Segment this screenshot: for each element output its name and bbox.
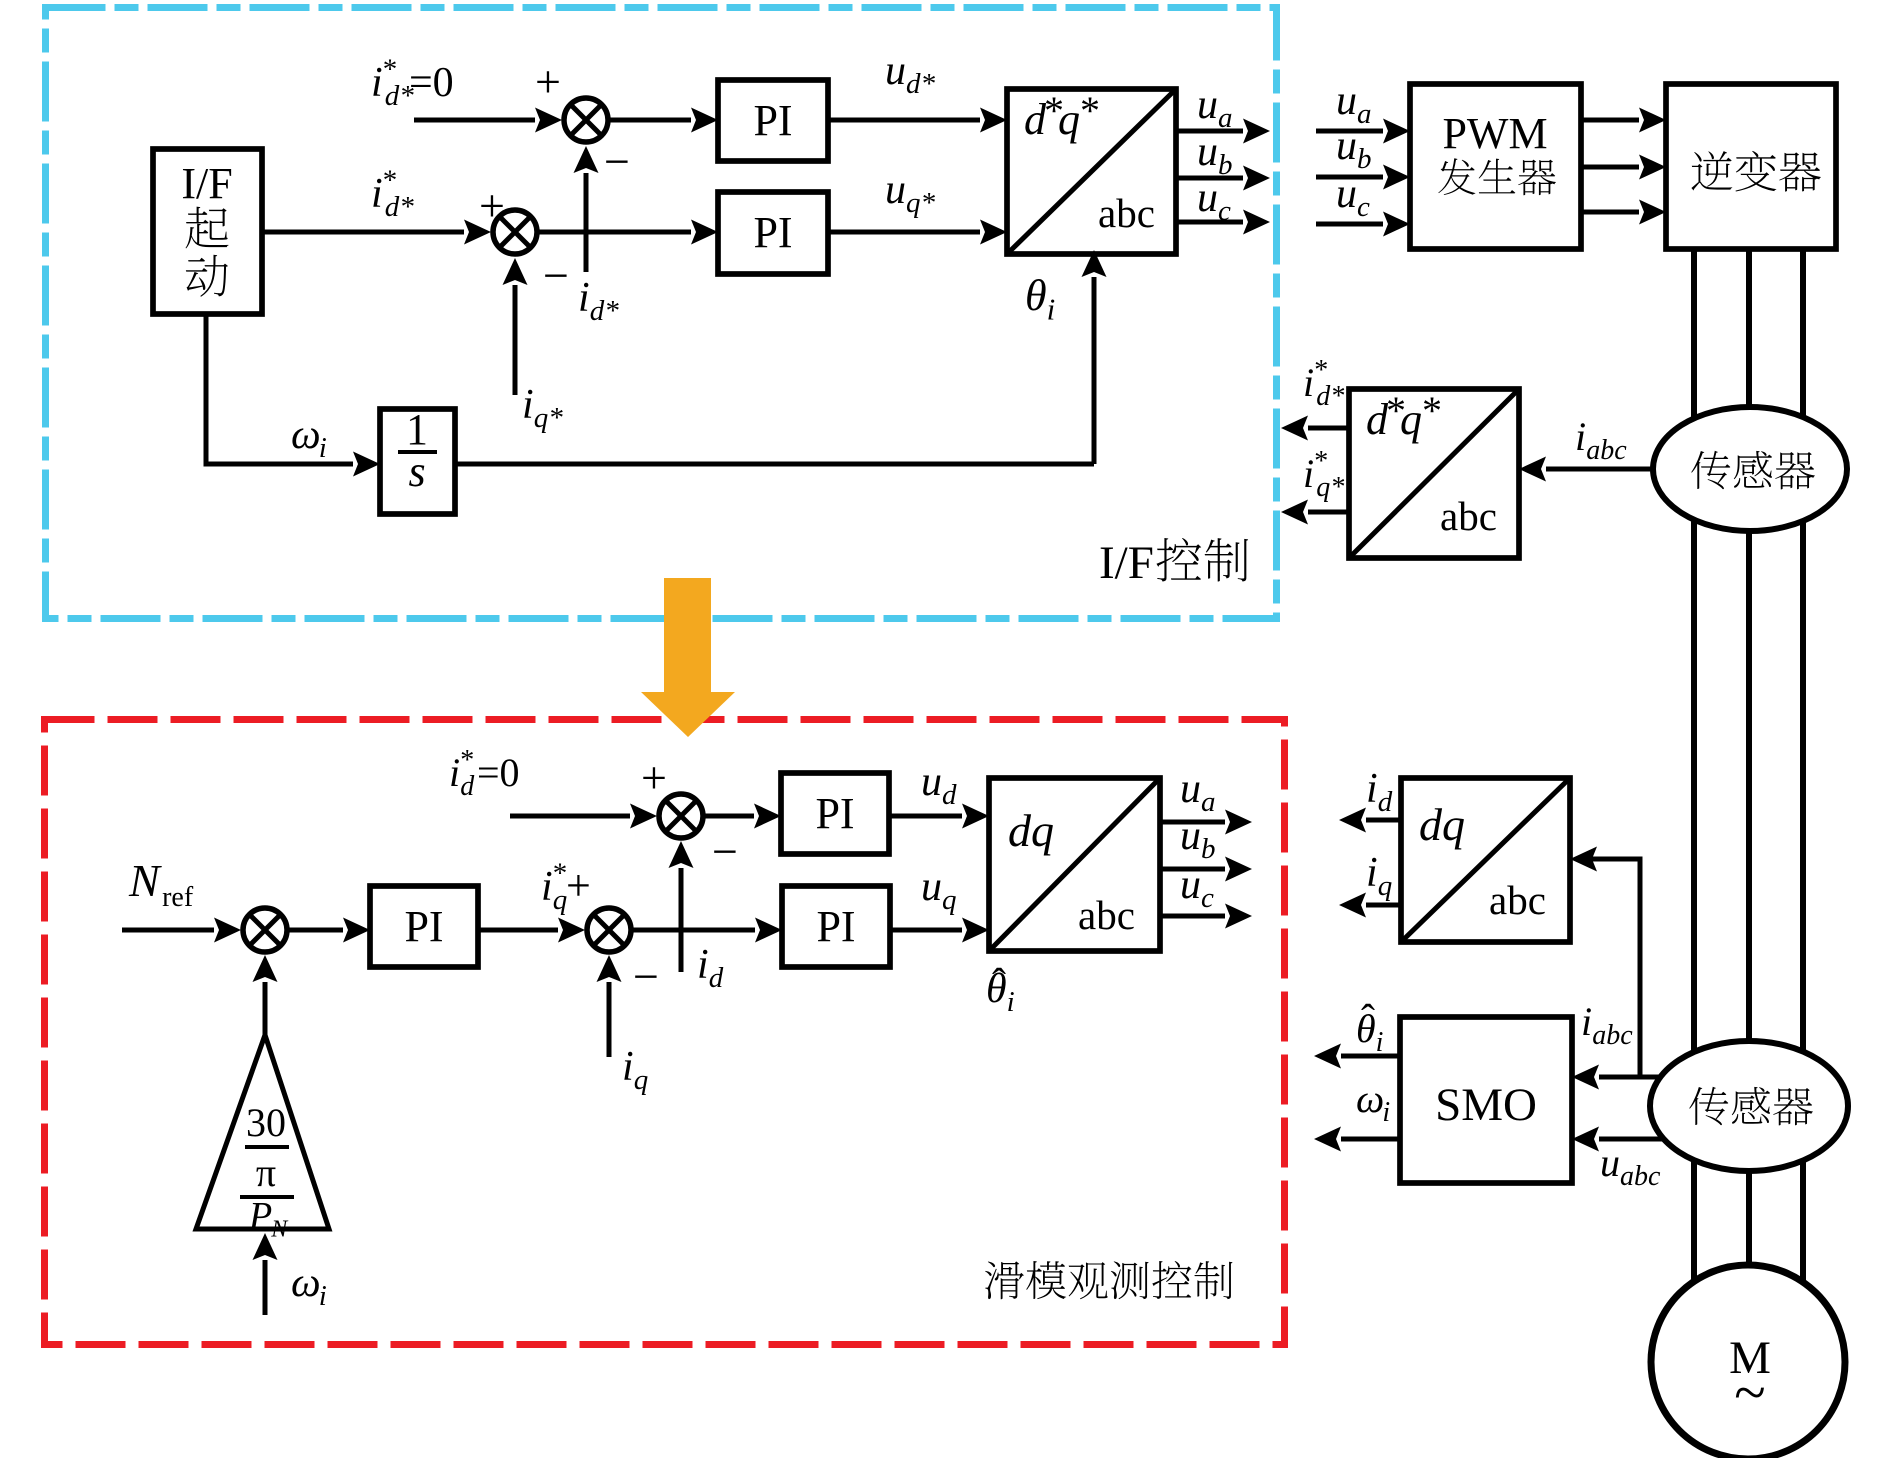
svg-text:θ: θ — [1025, 271, 1047, 320]
svg-text:−: − — [633, 951, 659, 1002]
svg-text:a: a — [1201, 786, 1216, 818]
svg-text:d: d — [1008, 805, 1032, 856]
svg-text:+: + — [641, 752, 667, 803]
svg-text:b: b — [1357, 143, 1372, 175]
svg-text:q*: q* — [534, 402, 564, 434]
svg-text:abc: abc — [1489, 877, 1546, 923]
svg-text:*: * — [1080, 88, 1100, 133]
wire: ub output (SMO) — [1160, 867, 1225, 872]
svg-text:i: i — [319, 1280, 327, 1312]
wire: id feedback into S3 (from below) — [679, 868, 684, 972]
wire: S1 output to PI block — [608, 118, 691, 123]
svg-text:30: 30 — [246, 1100, 286, 1145]
svg-text:ω: ω — [291, 412, 321, 458]
svg-text:−: − — [712, 826, 738, 877]
dashed boundary: sliding-mode observer control region (red) — [45, 720, 1285, 1345]
wire: integrator output theta-i feedback to transform block — [455, 462, 1094, 467]
svg-text:u: u — [885, 48, 906, 94]
transform block dq-abc (current feedback, SMO) — [1401, 778, 1570, 942]
svg-text:u: u — [1180, 766, 1201, 812]
PI controller (d-axis, SMO) — [781, 773, 889, 854]
svg-text:d*: d* — [906, 68, 936, 100]
svg-text:i: i — [1575, 414, 1586, 459]
wire: PWM gate signal 2 to inverter — [1581, 165, 1639, 170]
svg-text:PWM: PWM — [1442, 109, 1547, 158]
wire: omega-i from I/F block down to integrator — [206, 314, 353, 464]
summing junction S1 (d-axis, I/F) — [564, 98, 608, 142]
label sliding-mode observer control (region caption) — [985, 1261, 1233, 1299]
wire: omega-i input into triangle (from below) — [263, 1260, 268, 1315]
svg-text:u: u — [1336, 171, 1357, 217]
svg-text:I/F: I/F — [181, 159, 232, 208]
svg-text:d: d — [709, 962, 724, 994]
svg-text:i: i — [1007, 986, 1015, 1018]
block inverter (ni-bian-qi) — [1666, 84, 1836, 249]
wire: S2 output to PI block — [537, 230, 691, 235]
wire: S4 output to speed PI — [287, 928, 343, 933]
svg-text:PI: PI — [753, 208, 792, 257]
wire: id* reference into summing junction S1 — [414, 118, 535, 123]
svg-text:u: u — [1197, 82, 1218, 128]
sensor ellipse (current sensor, top) — [1653, 407, 1847, 531]
wire: omega-i output of SMO — [1341, 1137, 1400, 1142]
svg-text:c: c — [1357, 191, 1370, 223]
svg-text:ω: ω — [291, 1260, 321, 1306]
svg-text:u: u — [1180, 862, 1201, 908]
gain triangle 30/pi/PN (speed conversion) — [196, 1035, 329, 1229]
svg-text:c: c — [1201, 882, 1214, 914]
svg-text:abc: abc — [1592, 1020, 1633, 1051]
svg-text:θ: θ — [986, 966, 1007, 1012]
svg-text:i: i — [541, 864, 553, 910]
transform block d*q*-to-abc (I/F) — [1007, 89, 1176, 254]
svg-text:q: q — [1442, 799, 1465, 850]
wire: speed PI output to summing junction S5 — [478, 928, 558, 933]
svg-text:q: q — [634, 1064, 649, 1096]
wire: iq output to SMO controller — [1366, 903, 1401, 908]
wire: S3 output to PI — [703, 814, 754, 819]
svg-text:c: c — [1218, 195, 1231, 227]
svg-text:i: i — [1581, 999, 1592, 1044]
svg-text:ω: ω — [1356, 1076, 1384, 1121]
svg-text:abc: abc — [1098, 190, 1155, 236]
wire: ua output of transform (I/F) — [1176, 129, 1243, 134]
svg-text:i: i — [319, 432, 327, 464]
svg-text:u: u — [1197, 175, 1218, 221]
svg-text:i: i — [1366, 766, 1378, 812]
svg-text:u: u — [921, 864, 942, 910]
block I/F qidong (I/F start-up) — [153, 149, 262, 314]
sensor ellipse (current/voltage sensor, bottom) — [1650, 1041, 1848, 1171]
PI controller (q-axis, I/F) — [718, 192, 828, 274]
svg-text:i: i — [697, 942, 709, 988]
svg-text:u: u — [1336, 78, 1357, 124]
svg-text:abc: abc — [1586, 435, 1627, 466]
svg-text:a: a — [1218, 102, 1233, 134]
svg-text:q: q — [1400, 395, 1422, 444]
wire: PWM gate signal 3 to inverter — [1581, 210, 1639, 215]
svg-text:u: u — [1336, 123, 1357, 169]
svg-text:i: i — [1382, 1097, 1390, 1128]
svg-text:+: + — [535, 56, 561, 107]
svg-text:i: i — [622, 1044, 634, 1090]
mode-transition arrow (orange) — [641, 578, 735, 737]
wire: three-phase lines inverter-to-motor (x=1749) — [1746, 249, 1752, 1330]
svg-text:θ: θ — [1356, 1006, 1376, 1051]
wire: PWM gate signal 1 to inverter — [1581, 118, 1639, 123]
svg-text:d: d — [1378, 786, 1393, 818]
svg-text:*: * — [1422, 388, 1442, 433]
wire: iabc branch up into dq-abc transform (SMO) — [1578, 859, 1640, 1077]
svg-text:q: q — [1058, 95, 1080, 144]
svg-text:s: s — [408, 447, 425, 496]
summing junction S5 (q-axis, SMO) — [587, 908, 631, 952]
svg-text:P: P — [248, 1195, 272, 1237]
wire: S5 output to PI (q-axis, SMO) — [631, 928, 755, 933]
integrator block 1/s — [380, 409, 455, 514]
dashed boundary: I/F control region (cyan) — [46, 8, 1277, 619]
svg-text:u: u — [1197, 129, 1218, 175]
svg-text:~: ~ — [1734, 1360, 1765, 1425]
wire: uc output (SMO) — [1160, 914, 1225, 919]
svg-text:abc: abc — [1440, 493, 1497, 539]
svg-text:N: N — [270, 1216, 289, 1242]
wire: uc into PWM generator — [1316, 222, 1383, 227]
svg-text:u: u — [1600, 1140, 1620, 1185]
block PWM generator — [1410, 84, 1581, 249]
svg-text:q*: q* — [906, 187, 936, 219]
PI controller (q-axis, SMO) — [782, 886, 890, 967]
block SMO (sliding-mode observer) — [1400, 1017, 1572, 1183]
wire: PI output uq* to dq-abc transform — [828, 230, 980, 235]
svg-text:b: b — [1201, 833, 1216, 865]
wire: PI output ud* to dq-abc transform — [828, 118, 980, 123]
wire: uc output of transform (I/F) — [1176, 220, 1243, 225]
svg-text:N: N — [128, 855, 162, 906]
svg-text:d: d — [460, 771, 475, 802]
transform block dq-to-abc (SMO) — [989, 778, 1160, 951]
summing junction S3 (d-axis, SMO) — [659, 794, 703, 838]
svg-text:π: π — [256, 1150, 276, 1195]
svg-text:i: i — [1047, 292, 1056, 327]
svg-text:d*: d* — [385, 191, 415, 223]
wire: iabc from sensor into SMO — [1599, 1075, 1665, 1080]
summing junction S4 (speed loop) — [243, 908, 287, 952]
speed PI controller — [370, 886, 478, 967]
wire: theta-hat output of SMO — [1341, 1054, 1400, 1059]
svg-text:I/F: I/F — [1099, 537, 1154, 589]
wire: three-phase lines inverter-to-motor (x=1803) — [1800, 249, 1806, 1330]
wire: id* feedback into S1 (from below) — [584, 173, 589, 272]
wire: Nref into speed summing junction S4 — [122, 928, 214, 933]
wire: id output to SMO controller — [1366, 818, 1401, 823]
svg-text:i: i — [522, 382, 534, 428]
wire: ub output of transform (I/F) — [1176, 176, 1243, 181]
svg-text:=0: =0 — [477, 750, 520, 795]
svg-text:i: i — [371, 60, 383, 106]
svg-text:q*: q* — [1316, 472, 1344, 503]
svg-text:PI: PI — [404, 902, 443, 951]
wire: i*q* output to I/F controller — [1308, 510, 1349, 515]
svg-text:i: i — [1303, 451, 1314, 496]
svg-text:q: q — [1031, 805, 1054, 856]
wire: iabc from sensor to d*q*-abc transform — [1546, 467, 1653, 472]
svg-text:u: u — [921, 759, 942, 805]
svg-text:u: u — [1180, 813, 1201, 859]
svg-text:abc: abc — [1620, 1161, 1661, 1192]
svg-text:−: − — [604, 136, 630, 187]
svg-text:d: d — [1419, 799, 1443, 850]
svg-text:i: i — [1303, 360, 1314, 405]
wire: i*d* output to I/F controller — [1308, 426, 1349, 431]
svg-text:SMO: SMO — [1435, 1079, 1537, 1131]
wire: I/F block output to summing junction S2 — [262, 230, 464, 235]
svg-text:=0: =0 — [409, 60, 454, 106]
svg-text:abc: abc — [1078, 892, 1135, 938]
wire: triangle output up into speed junction S4 — [263, 982, 268, 1035]
svg-text:−: − — [543, 250, 569, 301]
wire: three-phase lines inverter-to-motor (x=1694) — [1691, 249, 1697, 1330]
svg-text:i: i — [578, 275, 590, 321]
wire: uq to dq-abc transform (SMO) — [890, 928, 962, 933]
wire: ub into PWM generator — [1316, 175, 1383, 180]
svg-text:ref: ref — [162, 882, 194, 913]
wire: iq* feedback into S2 (from below) — [513, 285, 518, 395]
svg-text:i: i — [449, 750, 460, 795]
transform block d*q*-abc (current feedback, I/F) — [1349, 389, 1519, 558]
svg-text:i: i — [371, 171, 383, 217]
svg-text:PI: PI — [816, 902, 855, 951]
wire: id* reference into summing junction S3 — [510, 814, 630, 819]
svg-text:i: i — [1366, 850, 1378, 896]
svg-text:+: + — [566, 861, 591, 910]
svg-text:u: u — [885, 167, 906, 213]
svg-text:d*: d* — [590, 295, 620, 327]
wire: ua into PWM generator — [1316, 129, 1383, 134]
svg-text:q: q — [1378, 870, 1393, 902]
svg-text:a: a — [1357, 98, 1372, 130]
wire: ud to dq-abc transform (SMO) — [889, 814, 962, 819]
svg-text:PI: PI — [753, 96, 792, 145]
PI controller (d-axis, I/F) — [718, 80, 828, 161]
svg-text:b: b — [1218, 149, 1233, 181]
svg-text:q: q — [942, 884, 957, 916]
svg-text:i: i — [1376, 1027, 1384, 1058]
svg-text:d*: d* — [1316, 381, 1344, 412]
wire: iq feedback into S5 (from below) — [607, 982, 612, 1057]
svg-text:d: d — [942, 779, 957, 811]
svg-text:PI: PI — [815, 789, 854, 838]
wire: uabc from sensor into SMO — [1599, 1137, 1664, 1142]
motor M (PMSM) — [1651, 1265, 1845, 1458]
summing junction S2 (q-axis, I/F) — [493, 210, 537, 254]
wire: ua output (SMO) — [1160, 820, 1225, 825]
